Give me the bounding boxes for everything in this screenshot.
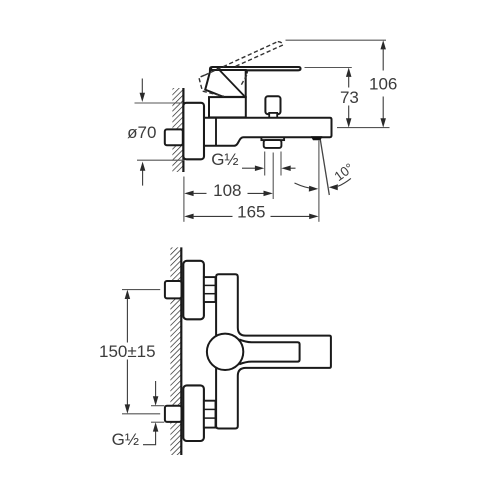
aerator mark — [311, 136, 323, 140]
spout bar with valve body block and wall nipple — [204, 118, 332, 146]
dimension 165 — [184, 214, 318, 220]
dimension ø70 arrow bottom — [140, 162, 146, 186]
dimension 108 — [184, 191, 273, 197]
10 degree arc left with arrow — [295, 183, 319, 192]
dimension 106 — [380, 40, 386, 127]
bottom inlet fitting — [165, 406, 182, 422]
top inlet fitting — [165, 281, 182, 298]
G1/2 extension lines (bottom view) — [151, 405, 164, 407]
dimension ø70 extension line bottom — [137, 159, 184, 161]
svg-text:73: 73 — [340, 88, 359, 107]
G1/2 thread extension lines (top view) — [264, 152, 266, 176]
cartridge collar — [209, 97, 246, 117]
wall hatch (top view) — [172, 88, 183, 172]
150 extension line top — [122, 289, 160, 291]
valve hub circle — [207, 334, 243, 370]
handle lever blade (solid) — [210, 67, 301, 74]
svg-text:150±15: 150±15 — [99, 342, 156, 361]
extension line from solid lever top (73) — [305, 67, 352, 69]
wall face line (bottom view) — [180, 247, 182, 455]
G1/2 upper arrow (bottom view) — [153, 381, 159, 406]
bottom escutcheon (front) — [183, 385, 204, 441]
svg-text:G½: G½ — [211, 150, 238, 169]
extension line from dashed lever tip (106) — [286, 39, 387, 41]
outlet knob under spout — [261, 137, 284, 148]
svg-text:165: 165 — [237, 203, 265, 222]
handle body — [205, 67, 246, 97]
outlet axis line — [272, 153, 274, 200]
svg-text:G½: G½ — [112, 430, 139, 449]
bottom ridged connector — [204, 401, 216, 428]
150 extension line bottom — [122, 413, 160, 415]
dimension ø70 extension line top — [135, 102, 184, 104]
inlet pipe stub behind wall — [165, 129, 183, 145]
escutcheon flange (side view) — [183, 103, 204, 160]
handle arm neck fill (erase circle arc) — [239, 339, 300, 365]
10 degree slant line — [320, 140, 329, 196]
svg-text:108: 108 — [213, 181, 241, 200]
G1/2 arrows (top view) — [242, 165, 296, 171]
handle face edge — [217, 68, 244, 97]
nipple/block separator — [215, 118, 217, 146]
body bar with handle arm outline — [216, 274, 331, 428]
handle arm inner outline — [239, 339, 299, 364]
shared bottom extension line for 73/106 — [337, 127, 390, 129]
dimension ø70 arrow top — [140, 79, 146, 103]
right extension line (165) — [318, 141, 320, 222]
left extension line from wall (108/165) — [183, 177, 185, 222]
diverter knob on top of spout — [265, 96, 280, 118]
dashed handle raised position — [199, 42, 283, 97]
svg-text:106: 106 — [369, 74, 397, 93]
wall face line (top view) — [182, 88, 184, 172]
dimension 150+-15 — [125, 290, 130, 414]
top ridged connector — [204, 277, 216, 302]
dimension 73 — [346, 68, 352, 128]
svg-text:ø70: ø70 — [127, 123, 156, 142]
wall hatch (bottom view) — [170, 247, 181, 455]
G1/2 lower leader with arrow (bottom view) — [143, 422, 158, 445]
10 degree arc right with arrow — [329, 178, 351, 190]
top escutcheon (front) — [183, 261, 204, 320]
